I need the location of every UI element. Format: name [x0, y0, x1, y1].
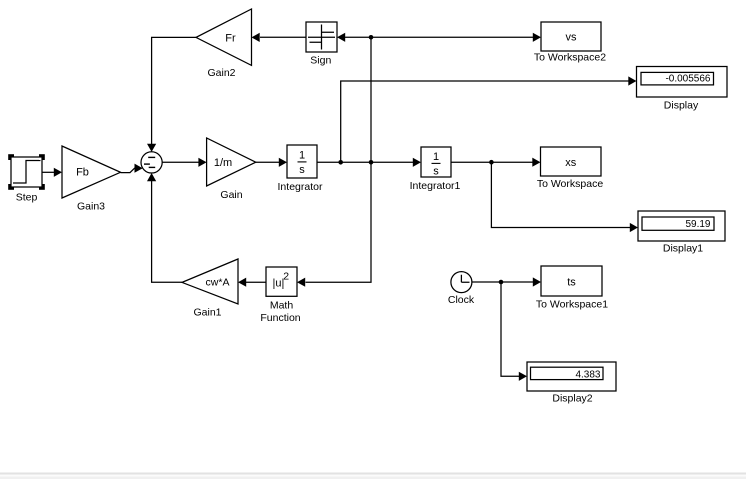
svg-text:To Workspace2: To Workspace2: [534, 52, 606, 64]
svg-text:-0.005566: -0.005566: [665, 74, 710, 85]
svg-text:s: s: [433, 166, 439, 178]
svg-text:Gain2: Gain2: [207, 67, 235, 79]
svg-text:To Workspace: To Workspace: [537, 178, 603, 190]
svg-text:Function: Function: [260, 312, 300, 324]
svg-text:xs: xs: [565, 157, 577, 169]
svg-text:1: 1: [299, 150, 305, 162]
svg-text:Integrator1: Integrator1: [410, 180, 461, 192]
svg-text:Gain3: Gain3: [77, 201, 105, 213]
svg-text:s: s: [299, 164, 305, 176]
svg-text:Fr: Fr: [225, 32, 236, 44]
svg-text:Math: Math: [270, 300, 294, 312]
svg-text:Fb: Fb: [76, 167, 89, 179]
svg-text:Gain: Gain: [220, 189, 242, 201]
svg-text:Display2: Display2: [552, 393, 592, 405]
svg-text:To Workspace1: To Workspace1: [536, 299, 608, 311]
svg-text:ts: ts: [567, 277, 576, 289]
svg-text:cw*A: cw*A: [206, 276, 230, 288]
svg-text:2: 2: [283, 271, 289, 283]
svg-text:1: 1: [433, 151, 439, 163]
svg-text:vs: vs: [566, 32, 578, 44]
svg-text:Step: Step: [16, 191, 38, 203]
svg-text:4.383: 4.383: [575, 370, 600, 381]
svg-text:59.19: 59.19: [685, 219, 710, 230]
svg-text:Integrator: Integrator: [278, 181, 323, 193]
svg-text:Display1: Display1: [663, 243, 703, 255]
svg-text:Sign: Sign: [310, 55, 331, 67]
svg-text:Display: Display: [664, 100, 699, 112]
svg-text:Gain1: Gain1: [193, 307, 221, 319]
svg-text:Clock: Clock: [448, 294, 475, 306]
svg-text:1/m: 1/m: [214, 157, 232, 169]
